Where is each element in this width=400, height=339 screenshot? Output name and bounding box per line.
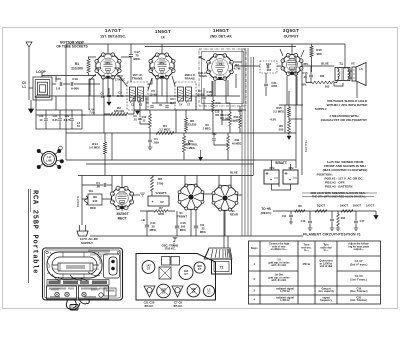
- tube circle 3Q5GT layout: [194, 262, 205, 273]
- svg-text:TRANS.: TRANS.: [184, 77, 195, 81]
- svg-text:455 KC.: 455 KC.: [173, 304, 183, 308]
- svg-text:R8: R8: [158, 177, 162, 181]
- chassis corner screws: [46, 251, 49, 254]
- svg-text:1,400 kc: 1,400 kc: [280, 299, 290, 302]
- plug storage slot: [104, 254, 120, 278]
- svg-text:R13: R13: [341, 217, 346, 220]
- capacitor C9 mid: [138, 118, 141, 119]
- wire drops tube V2 extra: [148, 78, 162, 96]
- wire drops tube V1 extra: [90, 74, 108, 96]
- wire rail y115: [36, 114, 127, 116]
- svg-text:I.F.: I.F.: [161, 36, 166, 40]
- wire C19 to V1 grid: [63, 83, 96, 85]
- filament resistor 3: [341, 210, 353, 213]
- wire osc box stubs: [36, 96, 86, 115]
- svg-text:.01: .01: [133, 119, 137, 122]
- wire V3 grid arrow: [199, 57, 242, 63]
- wire grid rail y75: [42, 76, 96, 83]
- wires T1 to speaker: [350, 71, 357, 98]
- wire second top rail: [145, 46, 296, 48]
- speaker flat view: [204, 248, 232, 259]
- svg-text:85V.: 85V.: [303, 62, 308, 66]
- svg-text:4.7M: 4.7M: [234, 67, 241, 71]
- svg-text:480: 480: [320, 74, 325, 78]
- wire 1H5 bottom drops: [205, 78, 230, 110]
- svg-text:1700 KC.: 1700 KC.: [164, 247, 176, 251]
- chassis middle strip: [47, 280, 109, 286]
- svg-text:FILAMENT CIRCUIT-POSITION #1: FILAMENT CIRCUIT-POSITION #1: [303, 233, 361, 237]
- wire output bottom rail: [279, 105, 303, 133]
- svg-text:(Osc. Trimmer): (Osc. Trimmer): [350, 290, 368, 293]
- svg-text:1N5GT: 1N5GT: [340, 205, 349, 208]
- wire rail y160: [66, 159, 296, 161]
- wire right box edge: [295, 57, 297, 168]
- filament resistor 1: [295, 210, 306, 213]
- svg-text:(1st I-F trans.): (1st I-F trans.): [350, 278, 367, 281]
- chassis oval ticks: [47, 252, 102, 274]
- svg-text:R3: R3: [205, 123, 209, 127]
- svg-text:90V.: 90V.: [150, 66, 155, 70]
- svg-text:R11: R11: [235, 138, 240, 142]
- svg-text:45V.: 45V.: [288, 166, 294, 170]
- svg-text:45V.: 45V.: [159, 61, 165, 65]
- svg-text:GT: GT: [198, 268, 202, 271]
- capacitor C23: [44, 119, 48, 120]
- svg-text:11A: 11A: [170, 102, 175, 105]
- resistor R9 ballast box: [88, 194, 102, 205]
- svg-text:frequency: frequency: [320, 299, 333, 302]
- svg-text:R12: R12: [142, 115, 147, 119]
- svg-text:BROWN: BROWN: [76, 196, 80, 207]
- resistor R14: [103, 142, 106, 154]
- svg-text:Steps: Steps: [251, 247, 258, 250]
- capacitor C6: [150, 106, 153, 107]
- svg-text:OF TUBE SOCKETS: OF TUBE SOCKETS: [56, 45, 88, 49]
- svg-text:455 kc: 455 kc: [303, 262, 311, 266]
- svg-text:to—: to—: [304, 249, 309, 252]
- svg-text:C19: C19: [72, 77, 78, 81]
- 2nd IF transformer T3 dashed box: [175, 82, 196, 110]
- svg-text:L4B: L4B: [46, 159, 51, 163]
- svg-text:GT: GT: [184, 273, 188, 276]
- wire antenna to loop: [29, 78, 33, 100]
- capacitor C1b 059: [148, 140, 152, 142]
- svg-text:L1: L1: [22, 85, 26, 89]
- svg-text:9-566: 9-566: [71, 87, 79, 91]
- svg-text:40 MEG.: 40 MEG.: [232, 142, 243, 146]
- capacitor C8: [165, 106, 168, 107]
- resistor R6b 590: [288, 120, 291, 134]
- chassis label smudge: [88, 250, 110, 253]
- svg-text:2 MEG.: 2 MEG.: [203, 128, 212, 131]
- capacitor C8: [194, 226, 198, 228]
- wire rail y133 AVC: [66, 132, 296, 134]
- svg-text:90V.: 90V.: [114, 66, 119, 70]
- ground arrow below T2: [136, 110, 140, 115]
- speaker cable below chassis: [66, 299, 89, 309]
- svg-text:R7: R7: [159, 206, 163, 210]
- resistor R11: [229, 112, 232, 126]
- gang capacitor circle layout: [203, 285, 214, 296]
- svg-text:.002: .002: [206, 94, 212, 98]
- svg-text:LOOP: LOOP: [36, 70, 46, 74]
- svg-text:output—: output—: [354, 248, 365, 251]
- svg-text:1A7GT: 1A7GT: [105, 28, 121, 33]
- svg-text:940: 940: [93, 199, 98, 203]
- svg-text:SUPPLY: SUPPLY: [81, 241, 94, 245]
- filament cap 1: [308, 221, 312, 223]
- svg-text:+: +: [289, 178, 291, 182]
- resistor R5: [239, 115, 242, 128]
- wire V1 top cap: [107, 44, 109, 53]
- trimmer capacitor C20: [60, 82, 62, 86]
- svg-text:RECT.: RECT.: [118, 217, 128, 221]
- svg-text:3600: 3600: [158, 212, 164, 216]
- wire rail y164: [86, 163, 254, 165]
- wire filament rail: [273, 210, 376, 212]
- svg-text:REAR: REAR: [230, 213, 239, 217]
- speaker: [352, 67, 356, 81]
- battery compartment left: [47, 286, 77, 299]
- svg-text:'A'BATT.: 'A'BATT.: [155, 191, 167, 195]
- svg-text:BLUE: BLUE: [230, 171, 238, 175]
- capacitor C21b: [58, 119, 62, 120]
- wire R1 top: [88, 57, 96, 76]
- antenna: [26, 42, 32, 78]
- svg-text:1ST. DET.&OSC.: 1ST. DET.&OSC.: [100, 35, 126, 39]
- svg-text:15-90: 15-90: [117, 94, 124, 98]
- ground at bottom rail: [173, 238, 178, 240]
- resistor R8: [151, 176, 154, 191]
- wire V2 top cap: [161, 44, 163, 53]
- svg-text:MFD.: MFD.: [133, 57, 140, 61]
- resistor 565 bottom: [312, 81, 334, 84]
- svg-text:8-175: 8-175: [64, 118, 71, 122]
- wire rail y175 B minus: [82, 175, 254, 177]
- svg-text:oscillator to—: oscillator to—: [271, 248, 288, 251]
- wire rail y96: [36, 95, 196, 97]
- svg-text:3.3 MEG.: 3.3 MEG.: [159, 128, 171, 132]
- svg-text:MFD.: MFD.: [200, 230, 207, 234]
- wire top rail B+: [66, 43, 345, 45]
- svg-text:-4.5V.: -4.5V.: [269, 118, 276, 122]
- svg-text:VC: VC: [351, 62, 355, 66]
- svg-text:T1: T1: [339, 62, 343, 66]
- resistor R15: [310, 46, 313, 57]
- wire rail y103 partial: [152, 102, 176, 104]
- ground arrow below loop: [29, 100, 34, 113]
- svg-text:8-45: 8-45: [52, 118, 58, 122]
- svg-text:565: 565: [325, 85, 330, 89]
- svg-text:with .01 mfd.: with .01 mfd.: [271, 279, 286, 282]
- svg-text:7.5A: 7.5A: [89, 111, 95, 115]
- svg-text:R1: R1: [75, 62, 79, 66]
- wire speaker to switch area: [224, 210, 228, 248]
- svg-text:7A: 7A: [77, 124, 80, 128]
- svg-text:R9: R9: [298, 204, 302, 208]
- svg-text:OUTPUT: OUTPUT: [284, 35, 300, 39]
- switch S1 rear wafer: [213, 186, 238, 211]
- svg-text:3Q5GT: 3Q5GT: [317, 205, 326, 208]
- svg-text:to—: to—: [324, 249, 329, 252]
- svg-text:590: 590: [279, 128, 284, 132]
- svg-text:YELLOW: YELLOW: [304, 140, 308, 152]
- svg-text:22: 22: [201, 227, 205, 231]
- svg-text:C6: C6: [100, 92, 104, 96]
- capacitor C22: [70, 119, 74, 120]
- battery B2: [283, 170, 298, 184]
- wire V3 pin drops: [212, 74, 236, 96]
- wire left rail: [65, 44, 67, 160]
- resistor R11b 40meg: [227, 136, 230, 150]
- shield box around V3: [199, 49, 246, 106]
- coil L in T3: [178, 87, 184, 101]
- tube V1 1A7GT: [96, 54, 120, 78]
- mount triangle mid: [172, 286, 183, 297]
- svg-text:end of dial: end of dial: [320, 265, 333, 268]
- svg-text:(RECT.): (RECT.): [261, 211, 272, 215]
- B minus arrow: [287, 134, 291, 140]
- wires battery connections: [272, 160, 291, 190]
- svg-text:35Z5GT: 35Z5GT: [116, 212, 129, 216]
- svg-text:C21: C21: [53, 114, 58, 118]
- trimmer capacitor C19: [71, 82, 73, 86]
- trimmer C2 C3 arrows: [130, 95, 144, 103]
- svg-text:.006: .006: [266, 68, 272, 72]
- svg-text:DL: DL: [159, 104, 163, 107]
- wires under V1 to osc coil: [89, 79, 94, 115]
- filament cap 2: [330, 219, 334, 221]
- wire rect top: [121, 176, 123, 212]
- resistor R15b 2.2meg: [288, 107, 291, 117]
- coil L in T2: [130, 87, 136, 101]
- wire right drop to transformer: [344, 44, 346, 69]
- svg-text:5.6 MEG.: 5.6 MEG.: [89, 146, 101, 150]
- svg-text:RED: RED: [90, 206, 96, 210]
- socket diagram bottom view: [42, 152, 57, 167]
- svg-text:TRANS.: TRANS.: [132, 77, 143, 81]
- svg-text:1,720 kc: 1,720 kc: [280, 290, 290, 293]
- filament end arrow: [374, 211, 378, 219]
- resistor R12 mid: [149, 114, 152, 128]
- vertical bus wires: [242, 48, 251, 236]
- svg-text:WITHIN ± 20% WITH RATED: WITHIN ± 20% WITH RATED: [327, 103, 368, 107]
- svg-text:6V: 6V: [160, 200, 164, 204]
- if can squares: [162, 257, 171, 266]
- svg-text:YEL: YEL: [88, 189, 93, 193]
- svg-text:980: 980: [316, 52, 321, 56]
- 1st IF transformer T2 dashed box: [127, 82, 148, 110]
- svg-text:2ND. DET.-AF.: 2ND. DET.-AF.: [210, 35, 232, 39]
- svg-text:1N5GT: 1N5GT: [155, 29, 171, 34]
- tube V5 35Z5GT rectifier: [112, 188, 133, 209]
- tube circle 35Z5GT layout: [157, 284, 171, 298]
- svg-text:C11: C11: [282, 214, 287, 218]
- svg-text:C17: C17: [360, 219, 365, 223]
- svg-text:C14: C14: [266, 62, 272, 66]
- svg-text:1 MEG.: 1 MEG.: [186, 146, 196, 150]
- capacitor C17: [129, 55, 133, 57]
- svg-text:.001: .001: [215, 114, 220, 117]
- capacitor C15: [309, 75, 313, 77]
- filament resistor R13 vertical: [337, 214, 340, 226]
- battery compartment right: [79, 286, 109, 299]
- svg-text:2.2 MEG.: 2.2 MEG.: [273, 110, 285, 114]
- svg-text:C23: C23: [39, 114, 44, 118]
- oscillator coil L4 box: [36, 110, 82, 129]
- svg-text:T1: T1: [220, 266, 224, 270]
- capacitor C1 line: [104, 183, 106, 187]
- tube V3 1H5GT: [208, 55, 233, 80]
- svg-text:(2nd I-F trans.): (2nd I-F trans.): [350, 263, 368, 266]
- svg-text:.05: .05: [145, 100, 149, 104]
- alignment table: [249, 241, 381, 304]
- svg-text:3Q5GT: 3Q5GT: [283, 28, 300, 33]
- capacitor C6 osc: [107, 95, 111, 97]
- svg-text:+: +: [270, 178, 272, 182]
- battery B1: [264, 170, 279, 184]
- svg-text:180,000: 180,000: [114, 109, 125, 113]
- wire bus line 4: [253, 57, 255, 175]
- arrow wire into S1: [199, 150, 203, 161]
- svg-text:SUPPLY.: SUPPLY.: [315, 107, 328, 111]
- svg-text:1-8: 1-8: [56, 87, 61, 91]
- loop oval in chassis: [47, 252, 102, 278]
- svg-text:C15: C15: [303, 71, 308, 75]
- svg-text:45V.: 45V.: [105, 61, 111, 65]
- wire mid verticals: [140, 96, 196, 133]
- wire loop top to grid: [42, 73, 56, 84]
- svg-text:1H5GT: 1H5GT: [353, 205, 362, 208]
- power plug: [80, 222, 86, 231]
- capacitor C13 det: [220, 114, 223, 115]
- svg-text:3700: 3700: [157, 182, 164, 186]
- svg-text:300: 300: [181, 225, 186, 229]
- wire rail y96 extend: [196, 95, 240, 97]
- svg-text:C5: C5: [118, 91, 122, 95]
- svg-text:MFD.: MFD.: [180, 228, 187, 232]
- svg-text:C6: C6: [145, 97, 149, 101]
- svg-text:'B'BATT.: 'B'BATT.: [275, 161, 288, 165]
- svg-text:L6: L6: [359, 67, 363, 71]
- svg-text:23,000: 23,000: [188, 123, 197, 127]
- svg-text:90V.: 90V.: [168, 66, 173, 70]
- svg-text:C10: C10: [301, 219, 306, 223]
- resistor R4: [156, 131, 174, 134]
- svg-text:TRANS.: TRANS.: [199, 75, 208, 78]
- wires tube V2 pins: [148, 76, 175, 96]
- svg-text:210,000: 210,000: [71, 67, 83, 71]
- filament resistor 2: [315, 210, 327, 213]
- wires switch area: [185, 176, 242, 237]
- filament cap C11 input: [289, 215, 293, 217]
- wire V4 pin drops: [280, 49, 304, 105]
- capacitor C18: [202, 97, 206, 99]
- chassis rear view drawing: [43, 248, 123, 300]
- capacitor C21 coupling: [264, 84, 268, 86]
- svg-text:C22: C22: [65, 114, 70, 118]
- chassis interior wires: [52, 272, 100, 281]
- svg-text:C18: C18: [207, 90, 212, 94]
- resistor R7b: [154, 210, 168, 213]
- resistor R2a: [110, 112, 128, 115]
- svg-text:1A7GT: 1A7GT: [366, 205, 375, 208]
- wires tube V1 to T2: [103, 75, 127, 96]
- tube V4 3Q5GT: [282, 55, 302, 75]
- wire V3 plate to C14: [234, 66, 281, 96]
- svg-text:R10: R10: [216, 101, 221, 105]
- svg-text:-.7V.: -.7V.: [217, 62, 223, 66]
- coil R in T2: [138, 87, 144, 101]
- tube V2 1N5GT: [150, 54, 174, 78]
- svg-text:.01: .01: [303, 75, 307, 79]
- tube circle 1H5GT layout: [179, 266, 193, 280]
- capacitor C11: [145, 225, 149, 227]
- svg-text:C8: C8: [170, 97, 174, 101]
- svg-text:1700KC: 1700KC: [115, 78, 125, 82]
- svg-text:.059: .059: [153, 141, 159, 145]
- capacitor C12: [220, 117, 224, 119]
- wire yellow lead: [301, 70, 303, 175]
- filament cap 3: [354, 221, 358, 223]
- svg-text:455 KC.: 455 KC.: [144, 304, 154, 308]
- svg-text:(MAX.COUNTER CLOCKWISE): (MAX.COUNTER CLOCKWISE): [323, 168, 368, 172]
- svg-text:1H5GT: 1H5GT: [213, 28, 229, 33]
- speaker hatch: [353, 70, 355, 78]
- tube circle 1A7GT layout: [142, 261, 155, 274]
- svg-text:MFD.: MFD.: [150, 228, 157, 232]
- wire rail top rect: [78, 176, 82, 223]
- switch S1 front wafer: [179, 185, 204, 210]
- coil R in T3: [186, 87, 192, 101]
- resistor R10: [212, 100, 215, 112]
- wire to yellow lead: [289, 118, 302, 120]
- wire vertical x112: [111, 133, 113, 160]
- svg-text:with .01 mfd.: with .01 mfd.: [271, 264, 286, 267]
- trimmer C4 C7 arrows: [178, 95, 192, 103]
- coupling capacitor C14 box: [260, 61, 277, 73]
- svg-text:RCA 25BP Portable: RCA 25BP Portable: [31, 190, 39, 274]
- tube circle 1N5GT layout: [187, 284, 200, 297]
- svg-text:CHANALYST OR VOLTOHMYST.: CHANALYST OR VOLTOHMYST.: [321, 118, 368, 122]
- wire V4 top to rail: [291, 44, 293, 54]
- wire rail y110 partial: [134, 109, 246, 111]
- svg-text:POS.#3 - BATTERY.: POS.#3 - BATTERY.: [325, 185, 354, 189]
- svg-text:FRONT: FRONT: [177, 215, 187, 219]
- svg-text:90V.: 90V.: [96, 66, 101, 70]
- svg-text:(Ant. Trimmer): (Ant. Trimmer): [350, 299, 367, 302]
- wire bottom rail y236: [90, 235, 303, 237]
- chassis bottom box text marks: [50, 296, 60, 298]
- mount triangle left: [144, 286, 155, 297]
- svg-text:.0005: .0005: [271, 85, 278, 88]
- ground arrow below C6: [107, 101, 111, 106]
- capacitor C10: [175, 226, 179, 228]
- capacitor .002 det: [212, 139, 216, 140]
- chassis top view outline: [136, 254, 216, 301]
- wires V4 plate to T1: [303, 66, 344, 86]
- svg-text:BLUE: BLUE: [321, 62, 329, 66]
- svg-text:GT: GT: [147, 267, 151, 270]
- wire rect cathode: [133, 194, 141, 196]
- svg-text:45V.: 45V.: [269, 166, 275, 170]
- line cord choke: [85, 196, 88, 205]
- svg-text:min. capacity: min. capacity: [318, 290, 334, 293]
- svg-text:+: +: [152, 200, 154, 204]
